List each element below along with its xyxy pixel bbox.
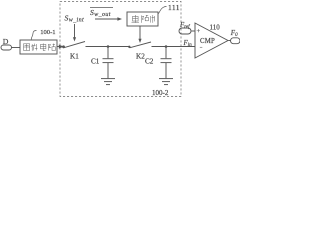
svg-text:+: + — [197, 28, 201, 35]
svg-text:110: 110 — [210, 23, 221, 31]
svg-text:K1: K1 — [70, 52, 79, 60]
svg-text:111: 111 — [168, 3, 180, 12]
svg-text:100-2: 100-2 — [152, 89, 169, 97]
svg-text:CMP: CMP — [200, 38, 215, 45]
svg-text:C2: C2 — [145, 57, 154, 65]
svg-text:100-1: 100-1 — [40, 29, 55, 36]
svg-text:C1: C1 — [91, 57, 100, 65]
svg-text:D: D — [3, 37, 9, 46]
svg-text:Fin: Fin — [183, 40, 193, 48]
svg-text:K2: K2 — [136, 52, 145, 60]
